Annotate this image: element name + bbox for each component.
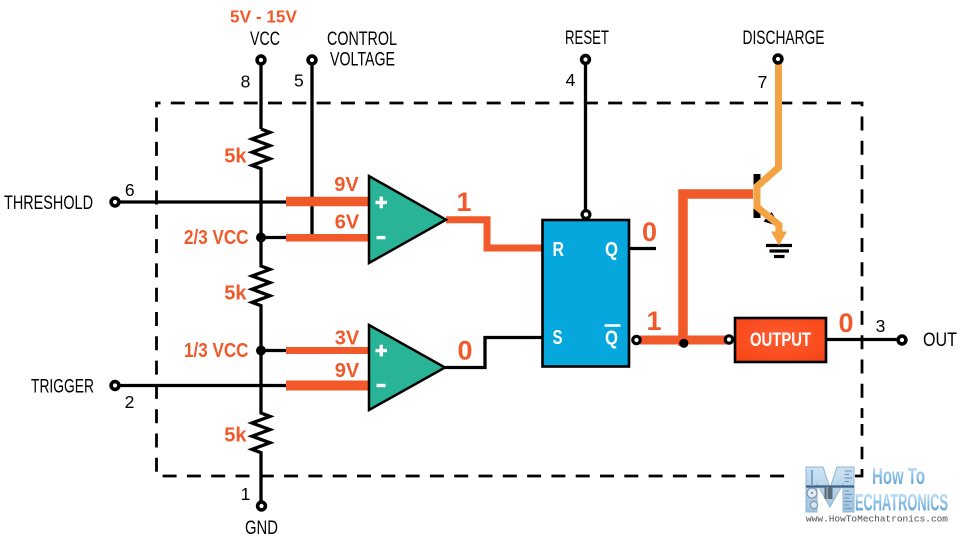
svg-text:2/3 VCC: 2/3 VCC xyxy=(184,227,249,249)
svg-text:0: 0 xyxy=(838,308,853,338)
svg-text:7: 7 xyxy=(758,72,768,92)
svg-text:5k: 5k xyxy=(224,425,247,447)
svg-text:OUTPUT: OUTPUT xyxy=(750,330,811,351)
svg-text:R: R xyxy=(553,239,565,261)
svg-text:RESET: RESET xyxy=(565,28,609,49)
svg-text:VCC: VCC xyxy=(250,29,280,50)
svg-text:1: 1 xyxy=(456,187,471,217)
svg-text:1: 1 xyxy=(646,306,661,336)
svg-text:0: 0 xyxy=(642,217,657,247)
svg-text:3V: 3V xyxy=(335,328,360,350)
svg-text:1: 1 xyxy=(241,484,251,504)
svg-text:How To: How To xyxy=(872,463,925,489)
svg-text:8: 8 xyxy=(241,72,251,92)
svg-text:www.HowToMechatronics.com: www.HowToMechatronics.com xyxy=(806,514,948,525)
svg-text:2: 2 xyxy=(125,392,135,412)
svg-text:GND: GND xyxy=(245,518,278,539)
svg-text:5: 5 xyxy=(294,71,304,91)
svg-text:1/3 VCC: 1/3 VCC xyxy=(184,340,249,362)
svg-text:6: 6 xyxy=(125,180,135,200)
svg-text:S: S xyxy=(553,327,563,349)
svg-text:VOLTAGE: VOLTAGE xyxy=(330,50,395,71)
svg-text:0: 0 xyxy=(457,336,472,366)
svg-text:TRIGGER: TRIGGER xyxy=(31,377,94,398)
svg-text:3: 3 xyxy=(876,316,886,336)
svg-text:6V: 6V xyxy=(335,212,360,234)
svg-text:5k: 5k xyxy=(224,146,247,168)
svg-text:DISCHARGE: DISCHARGE xyxy=(743,28,825,49)
svg-text:9V: 9V xyxy=(334,174,359,196)
svg-text:4: 4 xyxy=(566,70,576,90)
svg-text:5V - 15V: 5V - 15V xyxy=(230,7,297,27)
svg-text:ECHATRONICS: ECHATRONICS xyxy=(855,490,948,517)
svg-text:Q: Q xyxy=(605,239,618,261)
svg-text:9V: 9V xyxy=(335,360,360,382)
svg-text:Q: Q xyxy=(605,328,618,350)
svg-text:OUT: OUT xyxy=(923,330,957,351)
svg-text:CONTROL: CONTROL xyxy=(327,29,397,50)
svg-text:5k: 5k xyxy=(224,283,247,305)
svg-text:THRESHOLD: THRESHOLD xyxy=(4,193,93,214)
